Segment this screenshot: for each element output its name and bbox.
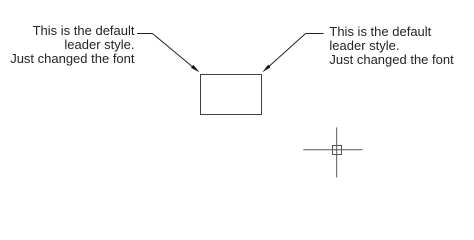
leader right: diagonal segment	[267, 34, 306, 69]
crosshair cursor: vertical line	[336, 127, 338, 177]
left annotation text block	[0, 24, 135, 66]
leader right: horizontal landing segment	[306, 33, 324, 35]
leader left: filled arrowhead	[191, 65, 200, 73]
crosshair cursor: pickbox square	[333, 146, 342, 155]
leader right: filled arrowhead	[262, 65, 270, 73]
leader left: horizontal landing segment	[137, 33, 153, 35]
leader left: diagonal segment	[153, 34, 196, 70]
crosshair cursor: horizontal line	[303, 149, 362, 151]
right annotation text block	[329, 25, 453, 67]
rectangle object	[201, 75, 262, 115]
